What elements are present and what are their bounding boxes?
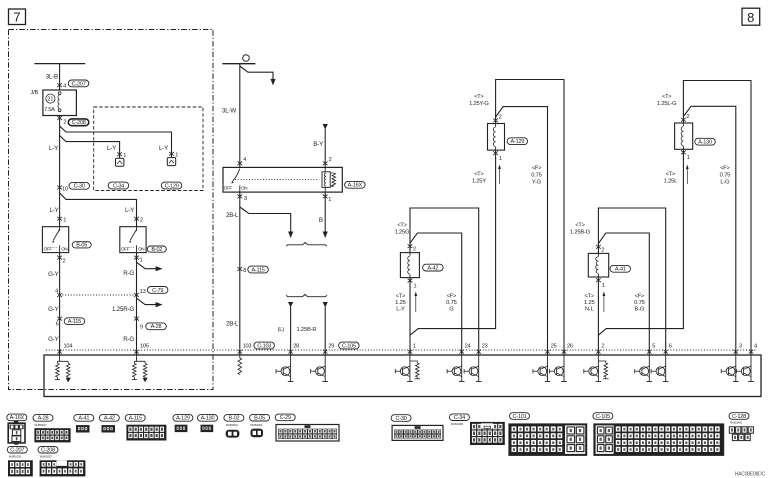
svg-text:A-28: A-28 — [151, 324, 162, 330]
svg-text:C-79: C-79 — [152, 288, 163, 294]
svg-text:<T>: <T> — [397, 223, 406, 229]
pin 2 tick A-130 — [681, 118, 686, 122]
connector drawing A-41 — [76, 425, 90, 432]
svg-text:A-115: A-115 — [251, 267, 264, 273]
svg-text:1: 1 — [499, 156, 502, 162]
svg-text:0.75: 0.75 — [634, 300, 644, 306]
svg-text:G-Y: G-Y — [48, 271, 58, 278]
svg-text:ON: ON — [241, 186, 247, 191]
connector drawing C-30 — [392, 425, 443, 440]
svg-text:2: 2 — [329, 157, 332, 163]
pin 1 tick relay — [323, 195, 328, 199]
connector label C-105 (oval, wire) — [339, 342, 360, 349]
connector label A-41 (bottom) — [74, 415, 94, 422]
svg-text:G-Y: G-Y — [48, 306, 58, 313]
connector drawing A-16X — [8, 421, 25, 445]
wire 0.75L-G branch (to ECU pin 3) — [683, 106, 735, 355]
pin 4 tick relay — [237, 161, 242, 165]
ECU internal transistor + resistor (pin 1) — [395, 355, 420, 382]
svg-text:OFF: OFF — [224, 186, 233, 191]
svg-text:A-115: A-115 — [68, 319, 81, 325]
svg-text:<T>: <T> — [666, 172, 675, 178]
incoming wire B-Y (arrow) — [323, 124, 328, 130]
svg-text:1: 1 — [123, 153, 126, 159]
svg-text:L-Y: L-Y — [107, 145, 116, 152]
pin 1 tick A-130 — [681, 151, 686, 155]
svg-text:A-129: A-129 — [511, 139, 525, 145]
svg-text:2: 2 — [63, 258, 66, 264]
solenoid A-41 (coil) — [588, 253, 608, 277]
svg-text:A-16X: A-16X — [348, 183, 363, 189]
svg-text:J/B: J/B — [31, 90, 39, 96]
branch wire 2B-L with down arrow — [240, 207, 291, 232]
svg-text:<T>: <T> — [585, 293, 594, 299]
wire 0.75G branch (to ECU pin 24) — [410, 233, 462, 355]
connector label C-101 (bottom) — [510, 413, 530, 420]
ECU internal transistor (pin 5) — [635, 355, 652, 382]
connector label A-42 (bottom) — [99, 415, 119, 422]
connector label C-34 (oval) — [108, 182, 129, 189]
ECU internal transistor (pin 23) — [464, 355, 481, 382]
svg-text:1.25G: 1.25G — [395, 230, 410, 236]
wire B from relay pin 1 (to arrow) — [324, 192, 326, 231]
svg-text:L-Y: L-Y — [396, 307, 405, 313]
connector label A-41 (oval) — [610, 265, 631, 272]
connector drawing C-101 — [508, 423, 587, 456]
wire 1.25Y-G loop (to ECU pin 26) — [496, 80, 564, 356]
terminal connector C-34 (square) — [116, 158, 124, 166]
svg-text:28: 28 — [293, 343, 299, 349]
svg-text:ON: ON — [138, 246, 144, 251]
connector drawing C-29 — [276, 425, 339, 442]
svg-text:(L): (L) — [278, 327, 285, 333]
continuation bracket (upper) — [286, 243, 327, 247]
pin 4 tick (C-79 left) — [57, 293, 62, 297]
svg-text:<F>: <F> — [635, 293, 644, 299]
svg-text:MU801400: MU801400 — [730, 421, 743, 425]
relay coil parallel resistor — [330, 173, 335, 186]
pin 2 tick relay — [323, 161, 328, 165]
svg-text:3: 3 — [244, 196, 247, 202]
svg-text:C-30: C-30 — [74, 184, 85, 190]
connector drawing A-130 — [201, 425, 214, 432]
svg-text:1.25B-G: 1.25B-G — [570, 230, 591, 236]
junction block J/B box — [43, 90, 77, 116]
svg-text:A-115: A-115 — [129, 416, 142, 422]
wire branch to switch B-02 — [60, 193, 137, 227]
svg-text:9: 9 — [140, 324, 143, 330]
connector label A-16X (oval) — [345, 181, 366, 188]
connector label A-129 (oval) — [507, 138, 527, 145]
svg-text:A-16X: A-16X — [10, 415, 25, 421]
svg-text:L-Y: L-Y — [49, 145, 58, 152]
connector label C-208 (bottom) — [38, 446, 58, 453]
branch arrow to instrument (lower) — [137, 298, 157, 304]
pin 2 tick A-41 — [596, 245, 601, 249]
svg-text:N-L: N-L — [585, 307, 595, 313]
svg-text:L-Y: L-Y — [159, 145, 168, 152]
relay actuation dotted line — [235, 178, 319, 180]
connector drawing B-02 — [226, 430, 240, 438]
svg-text:MU801328: MU801328 — [9, 455, 22, 459]
pin 13 tick (C-79 right) — [134, 293, 139, 297]
svg-text:21: 21 — [47, 97, 53, 103]
wire 1.25L-G loop (to ECU pin 4) — [683, 81, 751, 356]
svg-text:<T>: <T> — [474, 172, 483, 178]
wire 3L-B from bus to J/B — [59, 64, 61, 90]
connector label B-02 (oval) — [147, 246, 166, 253]
connector label C-30 — [69, 182, 90, 189]
ECU internal resistor pair (pin 104) — [55, 355, 71, 382]
svg-text:103: 103 — [243, 343, 252, 349]
connector label A-42 (oval) — [423, 264, 444, 271]
svg-text:2B-L: 2B-L — [226, 321, 239, 328]
pin 1 tick C-129 — [169, 152, 174, 156]
pin 1 tick C-34 — [117, 152, 122, 156]
ECU pin ticks at connector line — [57, 350, 61, 354]
svg-text:4: 4 — [754, 343, 757, 349]
ECU internal transistor (pin 24) — [447, 355, 464, 382]
svg-text:2: 2 — [499, 114, 502, 120]
svg-text:1: 1 — [414, 284, 417, 290]
svg-text:A-42: A-42 — [104, 416, 115, 422]
svg-text:B-02: B-02 — [228, 416, 239, 422]
svg-text:1.25Y-G: 1.25Y-G — [469, 101, 489, 107]
svg-text:A-130: A-130 — [201, 416, 215, 422]
connector label C-34 (bottom) — [449, 414, 469, 421]
connector label C-103 (oval) — [254, 342, 275, 349]
svg-text:B-G: B-G — [635, 307, 645, 313]
svg-text:0.75: 0.75 — [720, 173, 730, 179]
relay coil — [322, 167, 330, 192]
page number 8 box — [742, 8, 760, 25]
wire 1.25 N-L to ECU pin 2 — [597, 277, 599, 355]
svg-text:104: 104 — [64, 343, 73, 349]
svg-text:C-208: C-208 — [72, 120, 86, 126]
connector label A-28 (oval) — [146, 323, 167, 330]
pin 1 tick A-42 — [408, 279, 413, 283]
wire 1.25B-G loop (to ECU pin 6) — [598, 208, 665, 355]
svg-text:13: 13 — [140, 289, 146, 295]
ECU internal transistor (pin 29) — [311, 355, 328, 382]
pin 2 tick (C-208) — [57, 116, 62, 120]
pin 1 tick A-41 — [596, 278, 601, 282]
svg-text:2: 2 — [140, 217, 143, 223]
pin 2 tick below switch B-05 — [57, 256, 62, 260]
pin 1 tick below switch B-02 — [134, 256, 139, 260]
connector label C-30 (bottom) — [391, 415, 411, 422]
svg-text:1: 1 — [140, 258, 143, 264]
svg-text:MU801057: MU801057 — [40, 455, 53, 459]
svg-text:A-129: A-129 — [176, 416, 190, 422]
connector drawing A-42 — [102, 425, 116, 432]
svg-text:OFF: OFF — [44, 246, 53, 251]
wire G-Y switch B-05 to ECU pin 104 — [59, 253, 61, 355]
svg-text:3: 3 — [739, 343, 742, 349]
svg-text:3L-W: 3L-W — [222, 108, 236, 115]
branch wire with down arrow (from bus) — [240, 66, 273, 80]
svg-text:G-Y: G-Y — [48, 336, 58, 343]
svg-text:1: 1 — [413, 343, 416, 349]
svg-text:6: 6 — [56, 322, 59, 328]
relay switch lever — [233, 169, 240, 181]
connector label C-207 — [68, 80, 89, 87]
power bus bar (middle) — [222, 63, 255, 65]
svg-text:1: 1 — [687, 155, 690, 161]
ECU internal transistor (pin 3) — [721, 355, 738, 382]
svg-text:MU803062: MU803062 — [250, 423, 263, 427]
svg-text:25: 25 — [551, 343, 557, 349]
svg-text:B-02: B-02 — [151, 247, 162, 253]
wire L-Y junction block to switches — [59, 116, 61, 227]
svg-text:1.25: 1.25 — [584, 300, 594, 306]
svg-text:1: 1 — [602, 283, 605, 289]
fuse number 21 (circled) — [46, 94, 55, 103]
connector label C-29 (bottom) — [275, 414, 295, 421]
ECU connector dotted line — [46, 349, 757, 351]
svg-text:C-207: C-207 — [72, 81, 86, 87]
incoming wire 1.25B-R to pin 29 — [323, 302, 328, 308]
dotted connector line C-79 — [60, 294, 137, 296]
svg-text:23: 23 — [482, 343, 488, 349]
connector label A-16X (bottom) — [7, 414, 27, 421]
continuation bracket (lower) — [286, 294, 327, 296]
svg-text:4: 4 — [243, 157, 246, 163]
svg-text:L-G: L-G — [720, 180, 730, 186]
pin 9 tick (A-28) — [134, 317, 139, 321]
wire R-G switch B-02 to ECU pin 105 — [136, 253, 138, 355]
svg-text:C-101: C-101 — [513, 414, 527, 420]
svg-text:OFF: OFF — [121, 246, 130, 251]
svg-text:C-128: C-128 — [732, 414, 746, 420]
svg-text:C-30: C-30 — [396, 416, 407, 422]
connector drawing C-34 — [470, 422, 505, 445]
connector label A-130 (bottom) — [198, 415, 218, 422]
fuse 21 (7.5A) element — [58, 92, 61, 112]
wire 1.25G loop (to ECU pin 23) — [410, 208, 479, 355]
svg-text:2B-L: 2B-L — [226, 212, 239, 219]
wire branch to C-129 terminal — [60, 126, 172, 158]
connector label B-02 (bottom) — [224, 415, 244, 422]
incoming wire (L) to pin 28 — [288, 302, 293, 308]
svg-text:B: B — [319, 217, 323, 224]
svg-text:105: 105 — [140, 343, 149, 349]
svg-text:24: 24 — [465, 343, 471, 349]
dash-dot harness boundary box (left) — [9, 30, 214, 390]
connector drawing C-207 — [8, 460, 33, 476]
page number 7 box — [9, 9, 26, 25]
ECU internal resistor pair (pin 105) — [132, 355, 148, 382]
svg-text:1.25: 1.25 — [395, 300, 405, 306]
wire 0.75Y-G branch (to ECU pin 25) — [496, 107, 548, 355]
solenoid A-42 (coil) — [400, 253, 419, 278]
pin 1 tick switch B-05 — [57, 217, 62, 221]
connector label B-05 (oval) — [72, 242, 91, 249]
svg-text:C-103: C-103 — [257, 343, 271, 349]
connector label B-05 (bottom) — [250, 414, 270, 421]
svg-text:1: 1 — [63, 217, 66, 223]
svg-text:1.25L: 1.25L — [664, 179, 678, 185]
svg-text:0.75: 0.75 — [531, 173, 541, 179]
svg-text:5: 5 — [652, 343, 655, 349]
pin 2 tick switch B-02 — [134, 217, 139, 221]
svg-text:0.75: 0.75 — [446, 300, 456, 306]
dashed connector group box (C-34 / C-129) — [94, 107, 203, 191]
svg-text:L-Y: L-Y — [125, 207, 134, 214]
svg-text:B-05: B-05 — [254, 416, 265, 422]
connector label A-115 (oval) — [248, 266, 268, 273]
svg-text:6: 6 — [669, 343, 672, 349]
svg-text:A-41: A-41 — [615, 267, 626, 273]
connector drawing A-28 — [34, 428, 70, 442]
svg-text:8: 8 — [243, 268, 246, 274]
ECU internal transistor (pin 26) — [549, 355, 566, 382]
pin 3 tick relay — [237, 195, 242, 199]
solenoid A-130 (coil) — [675, 123, 693, 149]
svg-text:2: 2 — [413, 247, 416, 253]
wire 0.75B-G branch (to ECU pin 5) — [598, 233, 649, 355]
pin 2 tick A-129 — [493, 118, 498, 122]
ECU internal resistor (pin 103) — [239, 355, 241, 358]
svg-text:<F>: <F> — [720, 166, 729, 172]
pin 4 tick (C-207) — [57, 83, 62, 87]
svg-text:ON: ON — [61, 246, 67, 251]
connector label A-130 (oval) — [695, 138, 716, 145]
connector label C-208 (bold) — [68, 119, 89, 126]
svg-text:C-129: C-129 — [165, 183, 179, 189]
connector drawing C-105 — [593, 423, 724, 456]
relay contact tick — [239, 186, 241, 193]
svg-text:3L-B: 3L-B — [46, 74, 58, 81]
wire 1.25L down and across to ECU pin 2 — [598, 149, 683, 335]
svg-text:<F>: <F> — [447, 293, 456, 299]
svg-text:1.25B-R: 1.25B-R — [297, 327, 317, 333]
svg-text:7.5A: 7.5A — [44, 107, 55, 113]
wire 3L-W bus to relay pin 4 — [239, 64, 241, 168]
pin 2 tick A-42 — [408, 244, 413, 248]
svg-text:26: 26 — [567, 343, 573, 349]
svg-text:1: 1 — [328, 197, 331, 203]
svg-text:L-Y: L-Y — [49, 207, 58, 214]
connector label C-79 (oval) — [147, 287, 168, 294]
svg-text:R-G: R-G — [123, 270, 134, 277]
svg-text:C-34: C-34 — [113, 183, 124, 189]
svg-text:2: 2 — [601, 248, 604, 254]
wire 1.25 L-Y to ECU pin 1 — [409, 278, 411, 355]
svg-text:Y-G: Y-G — [532, 180, 542, 186]
svg-text:C-105: C-105 — [596, 414, 610, 420]
svg-text:<F>: <F> — [532, 166, 541, 172]
svg-text:1.25L-G: 1.25L-G — [657, 101, 677, 107]
svg-text:<T>: <T> — [396, 293, 405, 299]
ECU (transfer control unit) box — [44, 355, 761, 397]
switch B-02 (box) — [120, 227, 146, 253]
connector drawing B-05 — [251, 429, 264, 438]
pin 8 tick (A-115) — [237, 267, 242, 271]
wire 2B-L relay to ECU pin 103 — [239, 192, 241, 355]
pin 10 tick (C-30) — [57, 186, 62, 190]
ECU internal transistor (pin 28) — [276, 355, 293, 382]
wire branch to C-34 terminal — [60, 136, 120, 159]
svg-text:B-05: B-05 — [76, 243, 87, 249]
svg-text:G: G — [449, 307, 454, 313]
svg-text:A-42: A-42 — [427, 266, 438, 272]
connector drawing C-208 — [40, 460, 86, 476]
svg-text:A-130: A-130 — [698, 140, 712, 146]
ECU internal transistor (pin 6) — [651, 355, 668, 382]
svg-text:C-207: C-207 — [10, 448, 24, 454]
svg-text:2: 2 — [602, 343, 605, 349]
connector label C-129 (oval) — [161, 182, 182, 189]
svg-text:7: 7 — [13, 10, 20, 25]
ECU internal transistor (pin 25) — [533, 355, 550, 382]
svg-text:MU801095: MU801095 — [451, 422, 464, 426]
svg-text:29: 29 — [328, 343, 334, 349]
connector label C-105 (bottom) — [593, 413, 613, 420]
svg-text:C-208: C-208 — [41, 448, 55, 454]
ECU internal transistor (pin 4) — [736, 355, 753, 382]
switch B-05 (box) — [42, 227, 68, 253]
svg-text:HAC08E08DC: HAC08E08DC — [735, 472, 766, 478]
svg-text:B-Y: B-Y — [313, 141, 323, 148]
connector label A-28 (bottom) — [33, 415, 53, 422]
svg-text:1.25Y: 1.25Y — [472, 179, 486, 185]
ECU internal transistor + resistor (pin 2) — [584, 355, 609, 382]
svg-text:C-29: C-29 — [280, 415, 291, 421]
wire 1.25Y down and across to ECU pin 1 — [410, 150, 496, 335]
svg-text:C-105: C-105 — [342, 343, 356, 349]
connector drawing A-129 — [175, 425, 188, 432]
svg-text:A-28: A-28 — [38, 416, 49, 422]
terminal connector C-129 (square) — [167, 158, 175, 166]
svg-text:<T>: <T> — [474, 94, 483, 100]
fusible link circle on bus — [243, 55, 250, 62]
connector label A-129 (bottom) — [173, 415, 193, 422]
connector label C-207 (bottom) — [7, 446, 27, 453]
svg-text:MU808013: MU808013 — [34, 423, 47, 427]
connector label A-115 (bottom) — [125, 415, 145, 422]
connector drawing C-128 — [729, 427, 753, 441]
svg-text:<T>: <T> — [575, 223, 584, 229]
svg-text:4: 4 — [55, 288, 58, 294]
pin 1 tick A-129 — [493, 151, 498, 155]
svg-text:2: 2 — [63, 119, 66, 125]
branch arrow to instrument (upper) — [137, 262, 157, 269]
svg-text:8: 8 — [747, 10, 754, 25]
relay A-16X box — [223, 167, 342, 192]
svg-text:<T>: <T> — [662, 94, 671, 100]
svg-text:R-G: R-G — [123, 336, 134, 343]
solenoid A-129 (coil) — [488, 124, 505, 151]
connector label A-115 (pin 6 oval) — [64, 318, 85, 325]
svg-text:10: 10 — [62, 186, 68, 192]
svg-text:1.25R-G: 1.25R-G — [112, 306, 134, 313]
svg-text:MU802001: MU802001 — [226, 423, 239, 427]
connector drawing A-115 — [126, 425, 166, 441]
svg-text:C-34: C-34 — [454, 415, 465, 421]
svg-text:A-41: A-41 — [78, 416, 89, 422]
svg-text:2: 2 — [686, 114, 689, 120]
power bus bar (left) — [34, 63, 85, 65]
connector label C-128 (bottom) — [729, 413, 749, 420]
pin 6 tick (A-113) — [57, 317, 62, 321]
